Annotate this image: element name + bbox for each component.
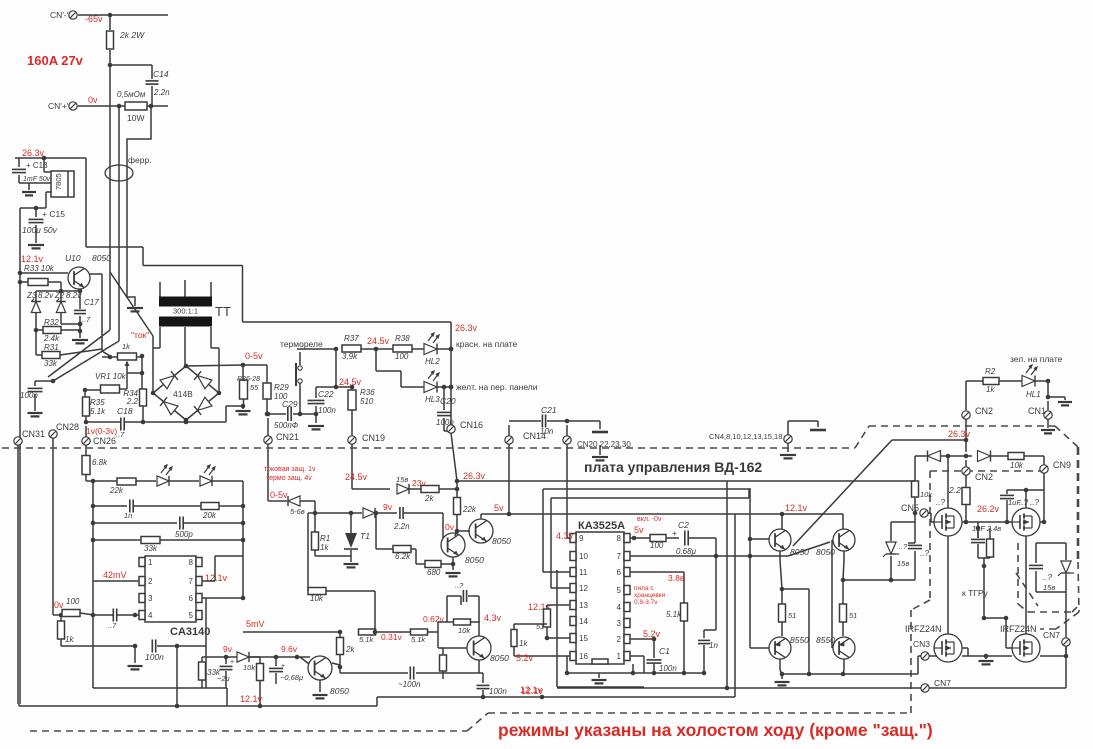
- svg-text:16: 16: [579, 652, 588, 661]
- svg-text:U10: U10: [65, 253, 81, 263]
- svg-text:15в: 15в: [1043, 583, 1055, 592]
- svg-text:CN2: CN2: [975, 406, 993, 416]
- svg-text:22k: 22k: [109, 486, 124, 495]
- svg-text:пила с: пила с: [634, 585, 654, 592]
- svg-text:..?: ..?: [1030, 498, 1039, 507]
- svg-text:R26-28: R26-28: [237, 376, 260, 383]
- svg-text:0.68μ: 0.68μ: [676, 547, 697, 556]
- svg-text:CN28: CN28: [56, 422, 79, 432]
- svg-text:2.2: 2.2: [126, 397, 139, 406]
- svg-text:C20: C20: [440, 396, 456, 406]
- svg-text:4.3v: 4.3v: [556, 531, 574, 541]
- svg-text:20k: 20k: [202, 511, 217, 520]
- svg-text:15в: 15в: [396, 475, 408, 484]
- svg-text:C1: C1: [659, 646, 670, 656]
- svg-text:414В: 414В: [173, 389, 193, 399]
- svg-text:6.2k: 6.2k: [395, 552, 411, 561]
- svg-text:8050: 8050: [490, 653, 509, 663]
- svg-text:CN7: CN7: [1043, 630, 1060, 640]
- svg-text:C18: C18: [117, 406, 133, 416]
- svg-text:8050: 8050: [465, 555, 484, 565]
- svg-text:0v: 0v: [445, 522, 455, 532]
- svg-text:1v(0-3v): 1v(0-3v): [86, 426, 117, 436]
- svg-text:зел. на плате: зел. на плате: [1010, 354, 1063, 364]
- svg-text:9v: 9v: [223, 644, 233, 654]
- svg-text:..?: ..?: [936, 498, 945, 507]
- svg-text:вкл. -0v: вкл. -0v: [637, 516, 662, 523]
- svg-text:5mV: 5mV: [246, 619, 265, 629]
- svg-text:100: 100: [395, 352, 409, 361]
- svg-text:2k: 2k: [424, 494, 434, 503]
- svg-text:7805: 7805: [54, 173, 63, 190]
- svg-text:R2: R2: [985, 367, 996, 376]
- svg-text:26.2v: 26.2v: [977, 504, 1000, 514]
- svg-text:1k: 1k: [122, 342, 131, 351]
- svg-text:C2: C2: [678, 520, 689, 530]
- svg-text:5.1k: 5.1k: [90, 407, 106, 416]
- svg-text:100: 100: [66, 597, 80, 606]
- svg-text:6.8k: 6.8k: [92, 458, 108, 467]
- svg-text:100n: 100n: [489, 687, 507, 696]
- svg-text:26.3v: 26.3v: [455, 323, 478, 333]
- svg-text:1mF 50v: 1mF 50v: [23, 176, 51, 183]
- svg-text:5.2v: 5.2v: [516, 653, 534, 663]
- svg-text:26.3v: 26.3v: [22, 148, 45, 158]
- svg-text:CN2: CN2: [975, 472, 993, 482]
- svg-text:4.3v: 4.3v: [484, 613, 502, 623]
- svg-text:..7: ..7: [82, 315, 91, 324]
- svg-text:8550: 8550: [790, 635, 809, 645]
- svg-text:14: 14: [579, 617, 588, 626]
- svg-text:8050: 8050: [492, 536, 511, 546]
- svg-text:15в: 15в: [897, 559, 909, 568]
- svg-text:1n: 1n: [709, 641, 718, 650]
- svg-text:3: 3: [148, 594, 153, 603]
- svg-text:0.8-3.7v: 0.8-3.7v: [634, 599, 658, 606]
- svg-text:VR1 10k: VR1 10k: [95, 372, 127, 381]
- svg-text:10k: 10k: [458, 626, 471, 635]
- svg-text:CN7: CN7: [934, 678, 951, 688]
- svg-text:CN19: CN19: [362, 433, 385, 443]
- svg-text:C17: C17: [84, 298, 99, 307]
- svg-text:"ток": "ток": [131, 330, 149, 340]
- svg-text:51: 51: [788, 611, 796, 620]
- svg-text:красн. на плате: красн. на плате: [456, 339, 518, 349]
- svg-text:2k: 2k: [345, 645, 355, 654]
- svg-text:8: 8: [189, 558, 194, 567]
- svg-text:33k: 33k: [44, 359, 58, 368]
- svg-text:510: 510: [360, 397, 374, 406]
- svg-text:1k: 1k: [986, 385, 995, 394]
- svg-text:9v: 9v: [383, 502, 393, 512]
- svg-text:CN14: CN14: [523, 431, 546, 441]
- svg-text:HL2: HL2: [425, 357, 440, 366]
- svg-text:12: 12: [579, 584, 588, 593]
- svg-text:IRFZ24N: IRFZ24N: [1000, 624, 1037, 634]
- svg-text:..7: ..7: [108, 621, 117, 630]
- svg-text:CN4,8,10,12,13,15,18: CN4,8,10,12,13,15,18: [709, 432, 782, 441]
- svg-text:3,9k: 3,9k: [342, 352, 358, 361]
- svg-text:CN5: CN5: [901, 503, 919, 513]
- svg-text:R1: R1: [320, 534, 330, 543]
- svg-text:5-6в: 5-6в: [290, 507, 305, 516]
- svg-text:термореле: термореле: [280, 339, 323, 349]
- svg-text:0v: 0v: [54, 600, 64, 610]
- svg-text:3.8в: 3.8в: [668, 573, 685, 583]
- svg-text:..7: ..7: [116, 430, 125, 439]
- svg-text:160A 27v: 160A 27v: [27, 53, 84, 68]
- svg-text:1k: 1k: [519, 639, 528, 648]
- svg-text:26.3v: 26.3v: [948, 429, 971, 439]
- svg-text:5.1k: 5.1k: [359, 635, 374, 644]
- svg-text:6: 6: [617, 568, 622, 577]
- svg-text:режимы указаны на холостом ход: режимы указаны на холостом ходу (кроме "…: [498, 720, 933, 740]
- svg-text:C22: C22: [318, 389, 334, 399]
- svg-text:24.5v: 24.5v: [345, 472, 368, 482]
- svg-text:TT: TT: [215, 304, 231, 319]
- svg-text:42mV: 42mV: [103, 570, 127, 580]
- svg-text:CN21: CN21: [276, 432, 299, 442]
- svg-text:хранцевки: хранцевки: [634, 592, 666, 599]
- svg-text:12.1v: 12.1v: [785, 503, 808, 513]
- svg-text:15: 15: [579, 634, 588, 643]
- svg-text:R31: R31: [44, 343, 59, 352]
- svg-text:100μ 50v: 100μ 50v: [22, 225, 58, 235]
- svg-text:4: 4: [148, 611, 153, 620]
- svg-text:ферр.: ферр.: [128, 155, 152, 165]
- svg-text:7: 7: [189, 577, 194, 586]
- svg-text:1: 1: [148, 558, 153, 567]
- svg-text:R37: R37: [344, 334, 359, 343]
- svg-text:0-5v: 0-5v: [245, 351, 263, 361]
- svg-text:55: 55: [250, 383, 259, 392]
- svg-text:7: 7: [617, 552, 622, 561]
- svg-text:2.2: 2.2: [948, 485, 961, 495]
- svg-text:5v: 5v: [494, 503, 504, 513]
- svg-text:680: 680: [427, 568, 441, 577]
- svg-text:10k: 10k: [920, 490, 933, 499]
- svg-text:CN31: CN31: [22, 429, 45, 439]
- svg-text:+ C15: + C15: [42, 209, 65, 219]
- svg-text:R35: R35: [90, 398, 105, 407]
- svg-text:12.1v: 12.1v: [521, 686, 544, 696]
- svg-text:100: 100: [650, 541, 664, 550]
- svg-text:3: 3: [617, 619, 622, 628]
- svg-text:6: 6: [189, 594, 194, 603]
- svg-text:11: 11: [579, 568, 588, 577]
- svg-text:2.2n: 2.2n: [393, 522, 410, 531]
- svg-text:5.1k: 5.1k: [411, 635, 426, 644]
- svg-text:+: +: [281, 663, 285, 670]
- svg-text:22k: 22k: [462, 505, 477, 514]
- svg-text:5.1k: 5.1k: [666, 610, 682, 619]
- svg-text:токовая защ. 1v: токовая защ. 1v: [264, 466, 316, 473]
- svg-text:1k: 1k: [65, 635, 74, 644]
- svg-text:10: 10: [579, 552, 588, 561]
- svg-text:5: 5: [617, 586, 622, 595]
- svg-text:10k: 10k: [243, 663, 256, 672]
- svg-text:33k: 33k: [144, 544, 158, 553]
- svg-text:10k: 10k: [1010, 461, 1024, 470]
- svg-text:1k: 1k: [320, 543, 329, 552]
- svg-text:+: +: [230, 659, 234, 666]
- svg-text:..?: ..?: [1043, 573, 1052, 582]
- svg-text:C21: C21: [541, 405, 557, 415]
- svg-text:~2μ: ~2μ: [217, 674, 230, 683]
- svg-text:8050: 8050: [92, 253, 111, 263]
- svg-text:CN16: CN16: [460, 420, 483, 430]
- svg-text:+ C13: + C13: [26, 161, 48, 170]
- svg-text:CA3140: CA3140: [170, 626, 210, 638]
- svg-text:26.3v: 26.3v: [463, 471, 486, 481]
- svg-text:IRFZ24N: IRFZ24N: [905, 624, 942, 634]
- svg-text:~0,68μ: ~0,68μ: [280, 673, 303, 682]
- svg-text:..?: ..?: [455, 581, 464, 590]
- svg-text:0.31v: 0.31v: [381, 632, 403, 642]
- svg-text:100n: 100n: [318, 406, 336, 415]
- svg-text:5v: 5v: [634, 525, 644, 535]
- svg-text:..?: ..?: [899, 542, 908, 551]
- svg-text:HL1: HL1: [1026, 390, 1041, 399]
- svg-text:желт. на пер. панели: желт. на пер. панели: [456, 382, 538, 392]
- svg-text:51: 51: [849, 611, 857, 620]
- svg-text:CN'-': CN'-': [50, 10, 69, 20]
- svg-text:..?: ..?: [920, 549, 929, 558]
- svg-text:T1: T1: [360, 531, 370, 541]
- svg-text:13: 13: [579, 601, 588, 610]
- svg-text:плата управления ВД-162: плата управления ВД-162: [584, 459, 762, 475]
- svg-text:9: 9: [579, 534, 584, 543]
- svg-text:2.2n: 2.2n: [153, 88, 170, 97]
- svg-text:500пФ: 500пФ: [274, 421, 299, 430]
- svg-text:CN'+': CN'+': [48, 101, 69, 111]
- svg-text:1n: 1n: [124, 511, 132, 520]
- svg-text:9.6v: 9.6v: [281, 644, 298, 654]
- svg-text:2: 2: [617, 635, 622, 644]
- svg-text:0,5мОм: 0,5мОм: [117, 90, 146, 99]
- svg-text:4: 4: [617, 603, 622, 612]
- svg-text:100n: 100n: [659, 664, 677, 673]
- svg-text:0-5v: 0-5v: [270, 490, 288, 500]
- svg-text:1uF: 1uF: [1008, 498, 1021, 507]
- svg-text:КА3525А: КА3525А: [578, 520, 625, 532]
- svg-text:CN26: CN26: [93, 436, 116, 446]
- svg-text:термо защ. 4v: термо защ. 4v: [266, 475, 312, 482]
- svg-text:2k 2W: 2k 2W: [119, 30, 145, 40]
- svg-text:12.1v: 12.1v: [21, 254, 44, 264]
- svg-text:R38: R38: [395, 334, 410, 343]
- svg-text:~100n: ~100n: [398, 680, 421, 689]
- svg-text:2: 2: [148, 577, 153, 586]
- svg-text:2.4k: 2.4k: [43, 334, 60, 343]
- svg-text:12.1v: 12.1v: [240, 694, 263, 704]
- svg-text:R32: R32: [44, 318, 59, 327]
- svg-text:5: 5: [189, 611, 194, 620]
- svg-text:R33 10k: R33 10k: [24, 264, 55, 273]
- svg-text:CN1: CN1: [1028, 406, 1046, 416]
- svg-text:R29: R29: [274, 383, 289, 392]
- svg-text:HL3: HL3: [425, 395, 440, 404]
- svg-text:8050: 8050: [330, 686, 349, 696]
- svg-text:10W: 10W: [127, 113, 144, 123]
- svg-text:300:1:1: 300:1:1: [173, 307, 198, 316]
- svg-text:C14: C14: [153, 69, 169, 79]
- svg-text:к ТГРу: к ТГРу: [962, 588, 989, 598]
- svg-text:0v: 0v: [88, 95, 98, 105]
- svg-text:100n: 100n: [20, 391, 38, 400]
- svg-text:CN9: CN9: [1053, 460, 1071, 470]
- svg-text:500p: 500p: [175, 530, 193, 539]
- svg-text:100n: 100n: [145, 652, 164, 662]
- svg-text:10k: 10k: [310, 594, 324, 603]
- svg-text:C29: C29: [282, 399, 298, 409]
- svg-text:1: 1: [617, 652, 622, 661]
- svg-text:+: +: [672, 528, 677, 538]
- svg-text:8: 8: [617, 534, 622, 543]
- svg-text:CN3: CN3: [913, 639, 930, 649]
- svg-text:R36: R36: [360, 388, 375, 397]
- svg-text:24.5v: 24.5v: [367, 336, 390, 346]
- svg-text:5.2v: 5.2v: [643, 629, 661, 639]
- svg-text:8.2v: 8.2v: [38, 291, 54, 300]
